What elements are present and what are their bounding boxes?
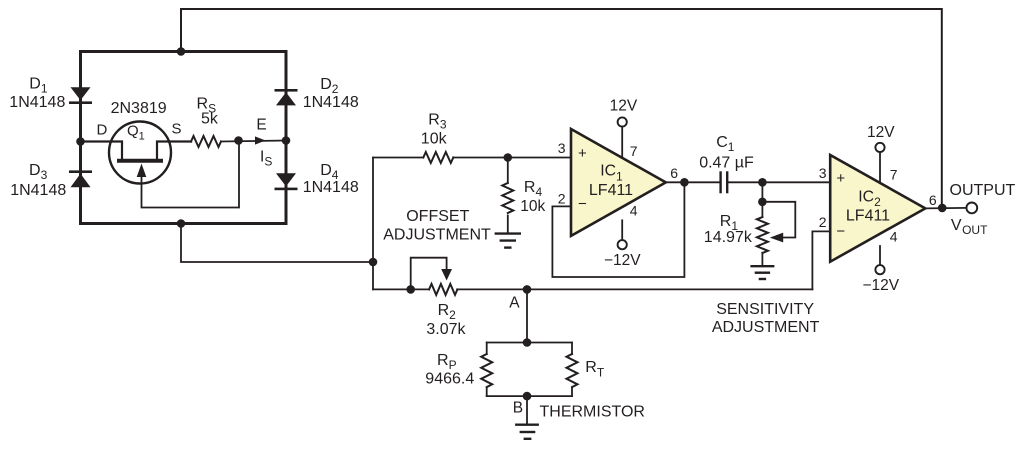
op-amp IC1 pin4 supply terminal -12V	[618, 240, 627, 249]
svg-text:12V: 12V	[610, 98, 638, 115]
node IC1 output junction	[680, 178, 689, 187]
capacitor C1	[721, 173, 728, 193]
node R1 tap top	[758, 178, 767, 187]
wire R1 bottom	[761, 253, 763, 267]
svg-text:2: 2	[558, 191, 566, 207]
node R2 left junction	[406, 285, 415, 294]
node B	[523, 392, 532, 401]
op-amp IC2	[830, 155, 925, 262]
svg-text:1N4148: 1N4148	[10, 182, 66, 199]
svg-text:R2: R2	[438, 302, 457, 322]
svg-text:−12V: −12V	[862, 277, 899, 294]
resistor R4	[502, 158, 513, 234]
node E (right bridge midpoint)	[282, 136, 291, 145]
wire R1 wiper loop with arrow	[762, 202, 795, 238]
svg-text:7: 7	[890, 166, 898, 182]
svg-text:3.07k: 3.07k	[426, 321, 466, 338]
svg-text:RP: RP	[437, 352, 457, 372]
resistor RP	[481, 343, 492, 397]
output terminal circle	[966, 203, 977, 214]
svg-text:4: 4	[630, 202, 638, 218]
op-amp IC1	[571, 129, 666, 236]
wire IC1 output to C1	[666, 181, 720, 183]
node junction at left riser	[369, 258, 378, 267]
wire IC1 pin2 feedback loop	[552, 182, 684, 277]
svg-text:ADJUSTMENT: ADJUSTMENT	[712, 319, 820, 336]
wire RS to E node with IS current arrow	[221, 141, 286, 142]
svg-text:RT: RT	[585, 359, 605, 380]
svg-text:OUTPUT: OUTPUT	[950, 182, 1016, 199]
node bridge bottom junction	[177, 219, 186, 228]
wire bottom rail left segment	[373, 288, 429, 290]
svg-text:ADJUSTMENT: ADJUSTMENT	[383, 227, 491, 244]
ground (thermistor B)	[516, 425, 537, 439]
svg-text:OUT: OUT	[962, 223, 988, 237]
svg-text:−12V: −12V	[604, 252, 641, 269]
node network top	[523, 338, 532, 347]
svg-text:THERMISTOR: THERMISTOR	[540, 404, 645, 421]
svg-text:7: 7	[630, 143, 638, 159]
svg-text:14.97k: 14.97k	[704, 229, 753, 246]
wire bridge bottom to left riser	[181, 224, 373, 263]
svg-text:1N4148: 1N4148	[303, 179, 359, 196]
wire R3 input	[373, 157, 423, 159]
wire R2 wiper loop with arrow	[411, 258, 447, 290]
svg-text:S: S	[172, 121, 182, 138]
op-amp IC2 pin7 supply terminal 12V	[875, 143, 884, 152]
svg-text:9466.4: 9466.4	[425, 371, 474, 388]
wire bottom rail right segment	[457, 288, 812, 290]
transistor Q1 JFET 2N3819	[81, 122, 240, 208]
svg-text:LF411: LF411	[846, 208, 890, 225]
resistor RT	[567, 343, 578, 397]
wire R3 to IC1 pin3	[453, 157, 571, 159]
svg-text:0.47 µF: 0.47 µF	[699, 154, 754, 171]
svg-text:3: 3	[558, 140, 566, 156]
resistor R1 (trimmer)	[757, 217, 768, 253]
svg-text:4: 4	[890, 229, 898, 245]
wire bridge rectangle (bold)	[81, 52, 287, 224]
svg-text:SENSITIVITY: SENSITIVITY	[716, 301, 814, 318]
svg-text:1N4148: 1N4148	[9, 94, 65, 111]
svg-text:6: 6	[670, 165, 678, 181]
svg-text:12V: 12V	[867, 124, 895, 141]
svg-text:D3: D3	[29, 162, 48, 182]
node IC2 output junction	[938, 204, 947, 213]
svg-text:5k: 5k	[201, 110, 219, 127]
wire node B to ground	[526, 396, 528, 425]
diode D4	[275, 173, 298, 190]
svg-text:V: V	[951, 217, 962, 234]
wire top rail from bridge top to output node	[181, 9, 942, 208]
ground (under R4)	[496, 234, 520, 248]
svg-text:−: −	[836, 223, 845, 240]
svg-text:6: 6	[929, 192, 937, 208]
svg-text:C1: C1	[716, 134, 735, 154]
resistor R3	[423, 152, 453, 163]
wire left riser vertical	[372, 158, 374, 290]
diode D1	[69, 87, 92, 104]
resistor R2 (rheostat)	[429, 284, 457, 295]
svg-text:1N4148: 1N4148	[303, 94, 359, 111]
svg-text:B: B	[513, 400, 523, 417]
wire R1 top	[761, 182, 763, 217]
svg-text:2N3819: 2N3819	[111, 100, 167, 117]
diode D2	[275, 89, 298, 105]
node D (left bridge midpoint)	[76, 137, 85, 146]
svg-text:R4: R4	[524, 179, 543, 199]
svg-text:−: −	[578, 196, 587, 213]
svg-text:D1: D1	[29, 75, 48, 95]
wire node A down to thermistor network	[526, 289, 528, 342]
svg-text:D2: D2	[320, 76, 339, 96]
wire IC2 output to terminal	[925, 207, 966, 209]
svg-text:3: 3	[819, 165, 827, 181]
svg-text:+: +	[836, 170, 845, 187]
svg-text:LF411: LF411	[589, 182, 633, 199]
node bridge top junction	[177, 47, 186, 56]
ground (under R1)	[752, 266, 774, 279]
node R4 tap	[504, 153, 513, 162]
svg-text:E: E	[256, 117, 266, 134]
resistor RS	[191, 136, 221, 147]
wire thermistor network top	[487, 342, 572, 344]
op-amp IC1 pin7 supply terminal 12V	[618, 117, 627, 126]
svg-text:Q1: Q1	[127, 123, 145, 143]
svg-text:2: 2	[819, 214, 827, 230]
svg-text:A: A	[509, 295, 520, 312]
wire C1 to IC2 pin3	[729, 181, 831, 183]
svg-text:R3: R3	[428, 112, 447, 132]
diode D3	[69, 170, 92, 187]
wire thermistor network bottom	[487, 395, 572, 397]
node R1 wiper tap	[758, 198, 767, 207]
wire IC2 pin2 stub to bottom rail	[812, 231, 830, 289]
svg-text:10k: 10k	[421, 131, 448, 148]
svg-text:IS: IS	[260, 148, 272, 168]
svg-text:D: D	[97, 121, 108, 138]
svg-text:10k: 10k	[520, 198, 545, 215]
op-amp IC2 pin4 supply terminal -12V	[875, 265, 884, 274]
svg-text:+: +	[578, 145, 587, 162]
svg-text:OFFSET: OFFSET	[406, 208, 469, 225]
node A	[523, 285, 532, 294]
